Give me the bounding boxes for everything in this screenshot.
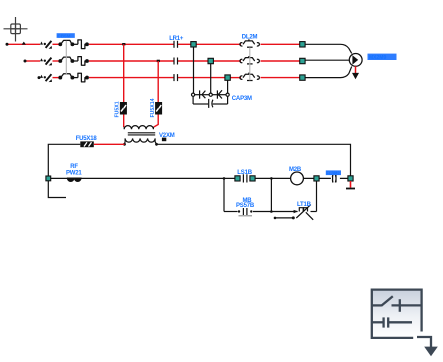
contact FL3M2 bbox=[332, 174, 336, 182]
crosshair origin marker bbox=[4, 17, 28, 42]
motor feeder wires bbox=[305, 44, 352, 77]
rung wire to coil bbox=[255, 177, 291, 179]
node square L2 bbox=[208, 58, 213, 63]
contactor DL2M pole 1 bbox=[240, 39, 259, 47]
rung wire bbox=[303, 177, 348, 179]
surge suppressor CAP3M bbox=[192, 90, 230, 108]
label MX2M9 (selected) bbox=[368, 54, 397, 60]
wire bus A vertical bbox=[123, 44, 125, 102]
phase L2 red wire bbox=[25, 60, 300, 62]
wire arrow tick L1 bbox=[22, 42, 26, 45]
svg-text:FU5X1: FU5X1 bbox=[115, 101, 121, 117]
svg-text:FL3M2: FL3M2 bbox=[326, 171, 340, 176]
svg-text:PW21: PW21 bbox=[66, 171, 82, 177]
svg-text:RF: RF bbox=[70, 164, 78, 170]
capacitor LR1 L2 bbox=[174, 58, 178, 65]
node square L1 bbox=[191, 42, 196, 47]
fuse FU5X1 bbox=[120, 102, 127, 115]
contactor CB5M pole 3 bbox=[59, 73, 88, 82]
fuse FU5X18 bbox=[80, 141, 94, 147]
terminal circle bbox=[46, 176, 51, 181]
terminal dots bbox=[6, 43, 41, 79]
svg-text:CB5M: CB5M bbox=[57, 33, 70, 38]
component PW21 bbox=[68, 178, 81, 181]
linkage arrow bbox=[275, 217, 293, 219]
node square T3 bbox=[300, 75, 305, 80]
svg-text:FU5X14: FU5X14 bbox=[150, 98, 156, 117]
contactor DL2M pole 2 bbox=[240, 56, 259, 64]
coil M2B bbox=[291, 172, 304, 185]
junction node L2 bus B bbox=[157, 60, 160, 62]
insert cursor icon bbox=[372, 290, 431, 348]
phase L3 red wire bbox=[39, 77, 300, 79]
bottom branch wire bbox=[224, 211, 238, 213]
node square T2 bbox=[300, 58, 305, 63]
contactor CB5M pole 2 bbox=[59, 57, 88, 66]
disconnect DS L3 bbox=[40, 74, 52, 82]
control rung wire bbox=[50, 177, 235, 179]
svg-text:MX2M9: MX2M9 bbox=[369, 55, 386, 61]
motor drop arrow bbox=[355, 66, 357, 73]
transformer V2XM secondary bbox=[125, 138, 157, 144]
wire stub below terminal bbox=[48, 181, 66, 198]
wire drop from node L1 bbox=[193, 47, 195, 93]
svg-text:V2XM: V2XM bbox=[159, 133, 175, 139]
wire control left bbox=[48, 144, 80, 176]
fuse FU5X14 bbox=[155, 102, 162, 115]
svg-text:FU5X18: FU5X18 bbox=[76, 136, 98, 142]
node square T1 bbox=[300, 42, 305, 47]
capacitor LR1 L1 bbox=[174, 41, 178, 48]
disconnect DS L1 bbox=[40, 41, 52, 49]
pressure switch PS57B bbox=[243, 208, 247, 215]
branch vertical mid bbox=[270, 178, 272, 211]
ground bbox=[350, 181, 352, 188]
contactor DL2M link line bbox=[249, 47, 251, 80]
label FL3M2 bbox=[326, 170, 341, 175]
wire drop from node L2 bbox=[210, 64, 212, 94]
thermal switch LT1B bbox=[296, 205, 313, 220]
svg-text:PS57B: PS57B bbox=[236, 203, 255, 209]
phase L1 red wire bbox=[7, 43, 300, 45]
svg-text:LT1B: LT1B bbox=[297, 202, 312, 208]
svg-text:LS1B: LS1B bbox=[237, 170, 252, 176]
wire bus B vertical bbox=[157, 61, 159, 102]
disconnect DS L2 bbox=[40, 58, 52, 66]
secondary junction dots bbox=[123, 143, 126, 146]
branch vertical right bbox=[316, 181, 318, 212]
svg-text:DL2M: DL2M bbox=[242, 34, 258, 40]
label CB5M (selected) bbox=[57, 33, 75, 38]
transformer V2XM primary bbox=[124, 126, 153, 130]
wire drop from node L3 bbox=[227, 80, 229, 93]
junction node L1 bus A bbox=[122, 43, 125, 45]
contactor DL2M pole 3 bbox=[240, 73, 259, 81]
svg-text:CAP3M: CAP3M bbox=[232, 96, 252, 102]
node square R2 bbox=[348, 176, 353, 181]
wire secondary left red bbox=[94, 143, 125, 145]
switch LS1B bbox=[235, 176, 240, 181]
contactor CB5M pole 1 bbox=[59, 40, 88, 49]
transformer core bbox=[128, 133, 155, 135]
capacitor LR1 L3 bbox=[174, 74, 178, 81]
motor U02M bbox=[349, 54, 362, 67]
svg-text:LR1+: LR1+ bbox=[169, 36, 184, 42]
contactor link line bbox=[65, 41, 67, 74]
svg-text:M2B: M2B bbox=[289, 167, 302, 173]
node square L3 bbox=[225, 75, 230, 80]
node square R1 bbox=[314, 176, 319, 181]
branch vertical left bbox=[223, 178, 225, 211]
control top wire bbox=[157, 144, 351, 175]
